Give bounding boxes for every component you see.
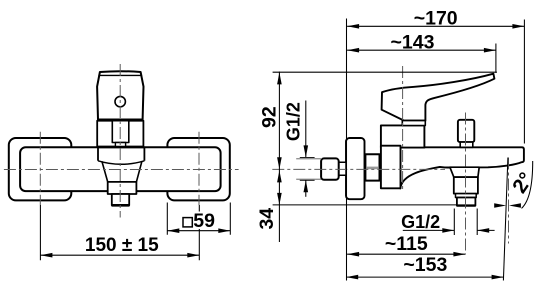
- right escutcheon centerline: [198, 132, 200, 205]
- arrow sq59 left: [167, 228, 179, 233]
- arrow ~143 left: [347, 48, 359, 53]
- aerator: [112, 194, 129, 205]
- arrow 150 left: [40, 253, 52, 258]
- svg-text:~153: ~153: [403, 254, 447, 276]
- arrow ~153 left: [346, 275, 358, 280]
- svg-text:59: 59: [193, 210, 215, 232]
- arrow sq59 right: [218, 228, 230, 233]
- left wall escutcheon: [9, 138, 72, 200]
- svg-text:92: 92: [258, 106, 280, 128]
- dim line G1/2 bottom: [403, 229, 495, 231]
- extension lever top: [273, 71, 497, 73]
- spout wing: [400, 147, 524, 188]
- front horizontal centerline: [4, 169, 239, 171]
- cartridge collar under handle: [97, 121, 143, 147]
- arrow G1/2 bottom right: [477, 228, 489, 233]
- diverter stem: [460, 142, 473, 147]
- spout tube: [108, 182, 137, 194]
- handle dot: [115, 96, 125, 106]
- svg-text:~143: ~143: [391, 31, 435, 53]
- lower body block: [381, 146, 401, 189]
- G1/2 left leader bottom: [305, 180, 307, 197]
- arrow ~153 right: [492, 275, 504, 280]
- tilted 2 deg flank extension: [503, 158, 508, 281]
- dim line square59: [167, 230, 230, 232]
- label square59 background mask: [181, 212, 216, 230]
- extension spout tip: [523, 20, 525, 144]
- outlet collar: [454, 177, 478, 194]
- locknut: [365, 154, 379, 180]
- 2 deg leader arc: [522, 161, 533, 208]
- arrow ~170 right: [512, 24, 524, 29]
- outlet step: [456, 194, 477, 198]
- dim line ~115: [347, 253, 465, 255]
- dim line 92 and 34: [278, 72, 280, 243]
- arrow G1/2 left top: [304, 145, 309, 157]
- supply pipe lines: [296, 159, 321, 179]
- connector neck: [339, 162, 346, 175]
- arrow 2deg left: [494, 203, 506, 208]
- outlet bottom edge: [457, 204, 476, 206]
- arrow 92 bottom: [277, 157, 282, 169]
- eccentric nut: [321, 158, 339, 179]
- aerator bottom edge: [112, 204, 130, 207]
- G1/2 left extension lines: [300, 157, 315, 180]
- svg-text:G1/2: G1/2: [401, 212, 440, 232]
- dim line 150pm15: [40, 254, 199, 256]
- dim line ~170: [347, 25, 524, 27]
- outlet shoulder: [450, 167, 479, 177]
- arrow G1/2 bottom left: [442, 228, 454, 233]
- arrow 34 top: [277, 170, 282, 182]
- vertical reference for 2 deg: [508, 158, 510, 244]
- arrow ~143 right: [484, 48, 496, 53]
- arrow 2deg right: [509, 203, 521, 208]
- handle front: [97, 71, 143, 119]
- arrow ~115 left: [347, 252, 359, 257]
- side horizontal centerline: [272, 168, 445, 170]
- handle cap band: [402, 121, 425, 126]
- outlet aerator: [457, 198, 476, 206]
- arrow 34 bottom: [277, 193, 282, 205]
- svg-text:~170: ~170: [414, 7, 458, 29]
- arrow ~115 right: [453, 252, 465, 257]
- svg-text:G1/2: G1/2: [283, 102, 303, 141]
- valve stem foot: [115, 143, 125, 147]
- spout base on body: [98, 147, 144, 161]
- outlet axis centerline: [465, 113, 467, 255]
- spout base arc: [98, 161, 144, 165]
- side handle axis centerline: [402, 66, 404, 192]
- G1/2 left leader top: [305, 101, 307, 158]
- mixer body bar: [20, 147, 221, 191]
- right wall escutcheon: [167, 138, 229, 200]
- svg-text:~115: ~115: [385, 233, 428, 255]
- dim line ~143: [347, 49, 496, 51]
- left escutcheon centerline: [39, 132, 41, 205]
- lever handle side: [382, 74, 495, 121]
- valve stem: [112, 121, 129, 143]
- extensions square59: [167, 203, 230, 235]
- arrow ~170 left: [347, 24, 359, 29]
- label square59 square: [183, 218, 192, 227]
- svg-text:34: 34: [256, 208, 278, 230]
- front main vertical centerline: [119, 64, 121, 218]
- extensions 150pm15: [40, 205, 199, 260]
- svg-text:150 ± 15: 150 ± 15: [85, 235, 159, 256]
- extension outlet bottom: [273, 204, 457, 206]
- arrow 150 right: [187, 253, 199, 258]
- arrow 92 top: [277, 72, 282, 84]
- dim line ~153: [346, 276, 503, 278]
- locknut gray band: [366, 167, 379, 170]
- wall flange: [346, 138, 365, 199]
- arrow G1/2 left bottom: [304, 180, 309, 192]
- handle cap seam: [98, 74, 142, 76]
- spout taper sides: [102, 161, 142, 182]
- diverter knob: [458, 120, 474, 142]
- extension wall plane: [346, 19, 348, 281]
- extension lever tip: [495, 44, 497, 73]
- upper body block: [381, 125, 425, 147]
- extensions G1/2 bottom: [454, 209, 477, 236]
